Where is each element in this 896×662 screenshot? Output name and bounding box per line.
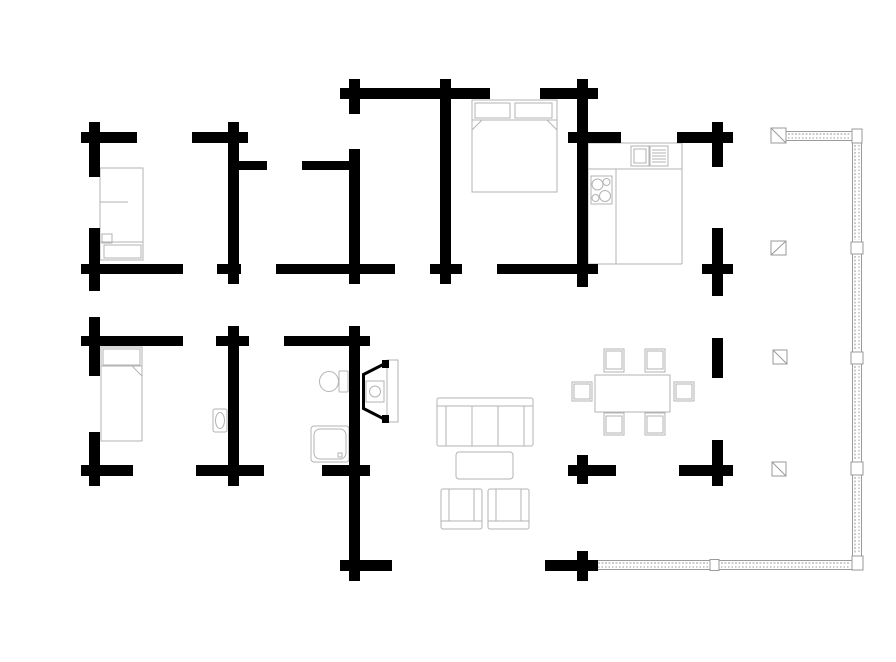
- toilet Bad: [320, 371, 349, 392]
- kitchen sink: [631, 146, 649, 166]
- wall row F: [340, 560, 392, 571]
- wall vindfang top: [228, 161, 267, 170]
- wall row A top of Bod/Soverom: [340, 88, 490, 99]
- washbasin Soverom 6.75: [213, 409, 227, 432]
- bed Soverom 9.31: [472, 100, 557, 192]
- terrace post P3: [773, 350, 787, 364]
- dining chair bottom-right: [645, 413, 665, 435]
- wall row C: [81, 264, 183, 274]
- fireplace stove: [363, 360, 399, 423]
- kitchen drainer: [650, 146, 668, 166]
- dining table: [595, 375, 670, 412]
- shower Bad: [311, 426, 349, 462]
- bed Soverom 7.02: [100, 168, 143, 260]
- terrace post P2: [771, 241, 786, 255]
- wall V4: [440, 79, 451, 284]
- wall V2 upper: [228, 122, 239, 284]
- wall row D: [81, 336, 183, 346]
- dining chair right: [674, 382, 694, 401]
- coffee table: [456, 452, 513, 479]
- wall V5: [577, 79, 588, 287]
- dining chair top-right: [645, 349, 665, 372]
- wall row E left: [81, 465, 133, 476]
- terrace post P4: [772, 462, 786, 476]
- dining chair bottom-left: [604, 413, 624, 435]
- terrace corner post SE: [852, 556, 863, 570]
- terrace north railing: [786, 132, 852, 141]
- kitchen counter under window: [588, 143, 682, 264]
- dining chair left: [572, 382, 592, 401]
- sofa: [437, 398, 533, 446]
- dining chair top-left: [604, 349, 624, 372]
- cooktop: [591, 176, 612, 204]
- wall V6 outer right: [712, 122, 723, 167]
- armchair 2: [488, 489, 529, 529]
- wall row B left wing top: [81, 132, 137, 143]
- terrace corner post NE: [852, 129, 862, 143]
- armchair 1: [441, 489, 482, 529]
- terrace south railing: [596, 560, 852, 571]
- terrace east railing: [851, 143, 863, 556]
- wall V3: [349, 79, 360, 114]
- wall V1 outer left: [89, 122, 100, 177]
- bed Soverom 6.75: [101, 347, 142, 441]
- wall row E right: [568, 465, 616, 476]
- wall row B kitchen top: [568, 132, 621, 143]
- terrace post P1: [771, 128, 786, 143]
- wall V2 lower: [228, 326, 239, 486]
